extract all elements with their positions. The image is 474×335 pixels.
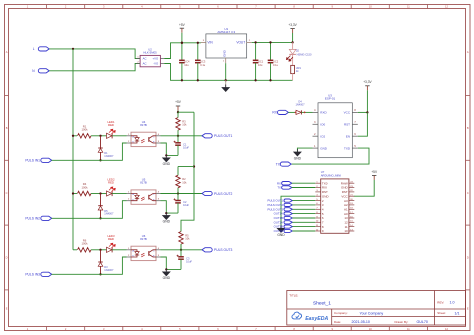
svg-text:10u: 10u: [184, 63, 189, 67]
svg-text:GUL70: GUL70: [417, 320, 428, 324]
node pullup row: [180, 249, 182, 251]
connector flag PULS IN: [41, 216, 52, 220]
svg-text:PULS IN3: PULS IN3: [25, 273, 40, 277]
svg-text:Sheet_1: Sheet_1: [313, 300, 331, 306]
connector flag PULS OUT: [202, 134, 212, 138]
node diode bottom: [99, 217, 101, 219]
ground main rail: [225, 80, 227, 87]
svg-text:VCC: VCC: [344, 111, 351, 115]
wire puls in: [52, 143, 127, 160]
optocoupler U5 817B box: [131, 190, 156, 204]
svg-text:D: D: [6, 256, 8, 260]
svg-text:GND: GND: [223, 49, 227, 57]
arduino U7 pins: [315, 182, 320, 184]
svg-text:EN: EN: [346, 135, 350, 139]
node gnd branch: [165, 268, 167, 270]
resistor UR1: [291, 65, 295, 73]
resistor R6 100k: [78, 248, 92, 252]
svg-text:10: 10: [344, 229, 348, 233]
wire arduino gnd: [281, 196, 315, 228]
svg-text:PULS OUT2: PULS OUT2: [267, 203, 283, 207]
node bus stage1: [72, 135, 74, 137]
svg-text:VCC: VCC: [341, 194, 348, 198]
connector flag L: [38, 47, 49, 51]
optocoupler pins: [127, 249, 132, 251]
optocoupler internal transistor: [148, 137, 150, 142]
svg-text:RXD: RXD: [320, 111, 327, 115]
svg-text:VIN: VIN: [207, 41, 213, 45]
svg-text:ESP-01: ESP-01: [325, 97, 336, 101]
wire puls in: [52, 201, 127, 219]
capacitor C3 10uF: [180, 250, 182, 257]
wire led to opto: [112, 193, 126, 195]
svg-text:UC4: UC4: [184, 60, 190, 64]
capacitor C2 10uF: [177, 194, 179, 201]
wire puls in: [52, 257, 127, 274]
connector flag PULS OUT: [202, 248, 212, 252]
svg-text:RX: RX: [272, 111, 277, 115]
svg-text:10uF: 10uF: [186, 260, 192, 264]
wire stage row: [73, 249, 77, 251]
optocoupler pins: [127, 193, 132, 195]
svg-text:ARDUINO_MINI: ARDUINO_MINI: [321, 173, 342, 177]
resistor R3 top wire: [177, 112, 179, 117]
node UC1 top: [254, 41, 256, 43]
node UC4 top: [181, 42, 183, 44]
svg-text:1/1: 1/1: [455, 311, 460, 315]
svg-text:AC: AC: [143, 62, 147, 66]
capacitor UC3: [197, 43, 199, 61]
wire resistor to led: [91, 135, 107, 137]
svg-text:Date:: Date:: [334, 320, 341, 324]
svg-text:1N4007: 1N4007: [295, 103, 305, 107]
node led anode: [99, 135, 101, 137]
wire U1 VOUT to +3.3V: [252, 41, 293, 43]
easyeda logo: [292, 312, 302, 319]
wire opto pin3 to gnd: [161, 257, 182, 269]
svg-text:1N4007: 1N4007: [104, 268, 114, 272]
node +5V stage1: [177, 111, 179, 113]
svg-text:+5V: +5V: [371, 170, 378, 174]
wire rx to d4: [288, 111, 296, 113]
svg-text:A: A: [467, 50, 469, 54]
node gnd branch: [165, 154, 167, 156]
connector flag PULS OUT2: [284, 203, 292, 206]
svg-text:OUT2B: OUT2B: [274, 225, 283, 229]
svg-text:817B: 817B: [140, 123, 147, 127]
node diode bottom: [99, 159, 101, 161]
wire L to U2: [49, 49, 140, 59]
ground stage: [165, 155, 167, 158]
connector flag PULS OUT: [202, 191, 212, 195]
node rail R2 tap: [193, 165, 195, 167]
node led anode: [99, 192, 101, 194]
svg-text:TITLE:: TITLE:: [289, 293, 298, 297]
capacitor UC4: [181, 43, 183, 61]
connector flag OUT1B: [284, 216, 292, 219]
node UC1 bottom: [254, 79, 256, 81]
svg-text:100k: 100k: [81, 128, 88, 132]
svg-text:A: A: [6, 50, 8, 54]
connector flag PULS OUT1: [284, 199, 292, 202]
wire opto out row: [161, 193, 203, 195]
optocoupler internal led: [131, 136, 137, 138]
ground stage: [165, 269, 167, 272]
svg-text:10k: 10k: [182, 180, 187, 184]
wire esp txd: [292, 148, 370, 164]
svg-text:UC2: UC2: [273, 60, 279, 64]
node L bus junction: [72, 48, 74, 50]
svg-text:GND: GND: [322, 194, 330, 198]
wire opto pin3 to gnd: [161, 201, 179, 213]
svg-text:+5V: +5V: [179, 23, 186, 27]
led LED3: [107, 247, 112, 252]
wire esp vcc: [358, 111, 368, 113]
svg-text:PULS OUT3: PULS OUT3: [214, 248, 232, 252]
wire stage row: [73, 135, 77, 137]
node UC2 bottom: [269, 79, 271, 81]
svg-text:RED: RED: [108, 123, 114, 127]
svg-text:GND: GND: [277, 233, 285, 237]
wire led to opto: [112, 135, 126, 137]
connector flag PULS IN: [41, 158, 52, 162]
title block frame: [287, 291, 466, 326]
node bus stage2: [72, 192, 74, 194]
wire stage row: [73, 193, 77, 195]
svg-text:TX: TX: [277, 186, 281, 190]
svg-text:A2: A2: [344, 203, 348, 207]
connector flag RX ard: [282, 182, 292, 185]
wire resistor to led: [91, 249, 107, 251]
svg-text:Your Company: Your Company: [360, 311, 384, 315]
diode D4 1N4007: [296, 110, 301, 114]
svg-text:AC: AC: [143, 57, 147, 61]
esp U3 pins: [313, 111, 319, 113]
svg-text:2021-05-10: 2021-05-10: [352, 320, 370, 324]
svg-text:TXD: TXD: [344, 146, 351, 150]
svg-text:D2: D2: [296, 48, 300, 52]
svg-text:Company:: Company:: [334, 311, 348, 315]
diode D1 1N4007: [100, 136, 102, 148]
connector flag OUT1A: [284, 212, 292, 215]
diode D3 1N4007: [100, 250, 102, 262]
optocoupler internal arrows: [141, 197, 144, 199]
svg-text:11: 11: [345, 225, 348, 229]
diode D5 1N4007: [100, 194, 102, 206]
svg-text:0.1u: 0.1u: [273, 63, 279, 67]
svg-text:PULS IN2: PULS IN2: [25, 217, 40, 221]
svg-text:10uF: 10uF: [183, 203, 189, 207]
connector flag TX esp: [280, 162, 291, 166]
resistor R5 10k: [179, 232, 183, 245]
svg-text:+3,3V: +3,3V: [288, 23, 297, 27]
regulator U1 pin VOUT: [247, 41, 252, 43]
node UC3 bottom: [197, 79, 199, 81]
wire L bus vertical: [72, 49, 74, 250]
wire opto pin3 to gnd: [161, 143, 179, 155]
wire +5V to rail: [178, 111, 194, 113]
capacitor UC2: [270, 42, 272, 60]
wire rail to R2: [178, 166, 194, 168]
wire U2 -VO ground rail: [164, 64, 292, 81]
module U2 pins: [136, 58, 140, 60]
svg-text:L: L: [33, 47, 35, 51]
esp U3 box: [318, 103, 352, 158]
ground arduino: [280, 225, 282, 228]
resistor R3 10k: [176, 118, 180, 131]
svg-text:PULS OUT2: PULS OUT2: [214, 192, 232, 196]
svg-text:OUT1A: OUT1A: [274, 212, 283, 216]
capacitor UC1: [255, 42, 257, 60]
svg-text:10uF: 10uF: [183, 146, 189, 150]
node diode bottom: [99, 273, 101, 275]
svg-text:1N4007: 1N4007: [104, 154, 114, 158]
svg-text:B: B: [6, 126, 8, 130]
optocoupler internal led: [131, 194, 137, 196]
node esp vcc: [366, 111, 368, 113]
connector flag PULS IN: [41, 272, 52, 276]
svg-text:+5V: +5V: [175, 100, 182, 104]
node UC2 top: [269, 41, 271, 43]
svg-text:RST: RST: [344, 123, 350, 127]
svg-text:+VO: +VO: [153, 57, 159, 61]
resistor R2 top wire: [177, 167, 179, 176]
svg-text:EasyEDA: EasyEDA: [305, 316, 328, 322]
svg-text:VOUT: VOUT: [236, 41, 245, 45]
svg-text:B: B: [467, 126, 469, 130]
resistor R4 100k: [78, 191, 92, 195]
svg-text:10k: 10k: [185, 237, 190, 241]
svg-text:Sheet:: Sheet:: [437, 311, 446, 315]
svg-text:HSMG-C150: HSMG-C150: [297, 52, 312, 56]
wire vcc to en: [358, 112, 368, 136]
svg-text:RXI: RXI: [322, 186, 327, 190]
svg-text:GND: GND: [163, 220, 171, 224]
svg-text:UC3: UC3: [200, 60, 206, 64]
svg-text:PULS OUT1: PULS OUT1: [214, 134, 232, 138]
connector flag OUT2A: [284, 221, 292, 224]
connector flag OUT3B: [284, 229, 292, 232]
regulator U1 pin GND: [225, 58, 227, 63]
svg-text:IO2: IO2: [320, 135, 325, 139]
resistor R1 100k: [78, 134, 92, 138]
optocoupler internal transistor: [148, 195, 150, 200]
svg-text:C: C: [6, 191, 8, 195]
wire opto out row: [161, 249, 203, 251]
node led anode: [99, 249, 101, 251]
svg-text:817B: 817B: [140, 181, 147, 185]
optocoupler U6 817B box: [131, 246, 156, 260]
svg-text:1N4007: 1N4007: [104, 212, 114, 216]
svg-text:OUT3B: OUT3B: [274, 229, 283, 233]
svg-text:E: E: [6, 306, 8, 310]
ground stage: [165, 213, 167, 216]
wire resistor to led: [91, 193, 107, 195]
svg-text:A0: A0: [344, 212, 348, 216]
wire U1 GND down: [225, 63, 227, 80]
optocoupler internal led: [131, 250, 137, 252]
svg-text:RED: RED: [108, 237, 114, 241]
svg-text:PULS IN1: PULS IN1: [25, 159, 40, 163]
wire opto out row: [161, 135, 203, 137]
svg-text:+3,3V: +3,3V: [363, 80, 372, 84]
optocoupler pins: [127, 135, 132, 137]
connector flag PULS OUT3: [284, 208, 292, 211]
svg-text:0.1u: 0.1u: [200, 63, 206, 67]
connector flag N: [38, 69, 49, 73]
node GND rail: [225, 79, 227, 81]
svg-text:GND: GND: [294, 156, 302, 160]
wire +5V rail vertical: [181, 112, 194, 231]
svg-text:D: D: [467, 256, 469, 260]
optocoupler internal arrows: [141, 139, 144, 141]
svg-text:REV:: REV:: [437, 300, 444, 304]
border ruler ticks: [46, 5, 48, 9]
led LED2: [107, 191, 112, 196]
node +5V rail junction: [181, 42, 183, 44]
node UC3 top: [197, 42, 199, 44]
svg-text:GND: GND: [320, 146, 328, 150]
optocoupler internal transistor: [148, 251, 150, 256]
svg-text:Drawn By:: Drawn By:: [395, 320, 409, 324]
module U2 HLK-5M05 box: [140, 55, 160, 66]
svg-text:E: E: [467, 306, 469, 310]
wire N to U2: [49, 64, 140, 71]
resistor R5 top wire: [180, 244, 182, 250]
resistor R2 10k: [176, 175, 180, 188]
wire d4 to rxd: [301, 111, 312, 113]
node +3.3V junction: [291, 41, 293, 43]
svg-text:C: C: [467, 191, 469, 195]
connector flag TX ard: [282, 186, 292, 189]
node pullup row: [177, 135, 179, 137]
arduino U7 box: [321, 179, 349, 233]
node gnd branch: [165, 212, 167, 214]
regulator U1 box: [206, 34, 247, 58]
optocoupler U4 817B box: [131, 132, 156, 146]
svg-text:100k: 100k: [81, 242, 88, 246]
svg-text:GND: GND: [341, 186, 349, 190]
svg-text:IO0: IO0: [320, 123, 325, 127]
svg-text:817B: 817B: [140, 237, 147, 241]
svg-text:GND: GND: [163, 276, 171, 280]
wire led to opto: [112, 249, 126, 251]
wire esp gnd: [297, 148, 312, 152]
node pullup row: [177, 192, 179, 194]
svg-text:GND: GND: [163, 162, 171, 166]
svg-text:UC1: UC1: [258, 60, 264, 64]
ground esp: [296, 149, 298, 152]
led D2 HSMG-C150: [292, 42, 294, 49]
regulator U1 pin VIN: [201, 41, 206, 43]
capacitor C1 10uF: [177, 136, 179, 143]
svg-text:AMS1117 3.3: AMS1117 3.3: [217, 30, 235, 34]
svg-text:10k: 10k: [182, 123, 187, 127]
optocoupler internal arrows: [141, 253, 144, 255]
svg-text:100k: 100k: [81, 185, 88, 189]
svg-text:1.0: 1.0: [450, 300, 455, 304]
connector flag OUT2B: [284, 225, 292, 228]
led LED1: [107, 133, 112, 138]
svg-text:HLK-5M05: HLK-5M05: [143, 51, 157, 55]
wire U2 +VO to U1 VIN: [164, 43, 201, 59]
node UC4 bottom: [181, 79, 183, 81]
svg-text:10u: 10u: [258, 63, 263, 67]
connector flag RX esp: [278, 110, 289, 114]
svg-text:RED: RED: [108, 181, 114, 185]
svg-text:-VO: -VO: [153, 62, 159, 66]
